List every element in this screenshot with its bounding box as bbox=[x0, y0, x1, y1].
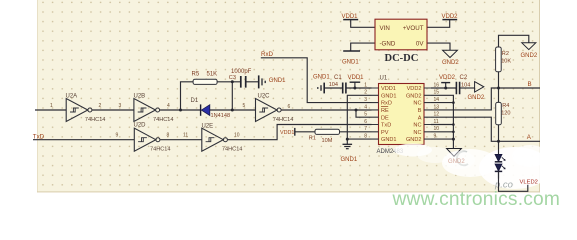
svg-text:GND1: GND1 bbox=[341, 157, 358, 163]
svg-text:A: A bbox=[418, 115, 422, 121]
power port VDD2 (IC pin16) bbox=[439, 75, 456, 82]
junction at VDD1 / pin1 bbox=[353, 87, 356, 90]
IC U1 RE overline bbox=[381, 106, 388, 108]
svg-text:3: 3 bbox=[119, 103, 122, 109]
wire C1 chain to pin1 bbox=[324, 82, 371, 88]
junction at net B / R2 bbox=[497, 87, 500, 90]
white wash background bottom right bbox=[417, 145, 551, 189]
svg-text:9: 9 bbox=[434, 134, 437, 140]
svg-text:GND2: GND2 bbox=[468, 95, 485, 101]
wire DCDC GND2 bbox=[427, 43, 450, 50]
resistor R1 bbox=[309, 129, 340, 144]
svg-text:10: 10 bbox=[434, 126, 440, 132]
svg-text:U2B: U2B bbox=[134, 94, 146, 100]
wire D1 to U2C bbox=[210, 109, 256, 111]
svg-text:2: 2 bbox=[364, 90, 367, 96]
svg-text:VLED2: VLED2 bbox=[520, 180, 538, 186]
svg-text:74HC14: 74HC14 bbox=[150, 146, 171, 152]
IC U1 right pin stubs bbox=[424, 88, 431, 139]
wire B to R4 bbox=[498, 88, 500, 102]
op-amp/IC U1 ADM2483 bbox=[377, 75, 425, 154]
power port GND1 (DC-DC) bbox=[342, 51, 360, 66]
IC U1 left pin names bbox=[381, 86, 397, 143]
svg-text:1N4148: 1N4148 bbox=[211, 113, 231, 119]
wire VDD1 to R1 bbox=[295, 131, 315, 133]
svg-text:GND1: GND1 bbox=[342, 60, 359, 66]
svg-text:GND1: GND1 bbox=[381, 93, 397, 99]
svg-text:14: 14 bbox=[434, 97, 440, 103]
wire net A bbox=[431, 117, 540, 141]
svg-text:C1: C1 bbox=[334, 75, 342, 81]
ground GND2 (DC-DC) bbox=[442, 50, 459, 66]
svg-text:16: 16 bbox=[434, 82, 440, 88]
svg-text:VDD1: VDD1 bbox=[280, 130, 294, 136]
svg-text:VDD2: VDD2 bbox=[407, 86, 422, 92]
svg-text:DE: DE bbox=[381, 115, 389, 121]
junction at GND2 bus pin10 bbox=[452, 131, 455, 134]
wire C3 node down bbox=[231, 82, 233, 110]
wire pin16 VDD2 bbox=[431, 83, 456, 88]
power port VDD1 (DC-DC) bbox=[342, 14, 359, 20]
svg-text:RxD: RxD bbox=[261, 51, 274, 58]
svg-text:10M: 10M bbox=[322, 138, 333, 144]
schematic sheet background bbox=[37, 0, 540, 192]
junction at R5-C3 node bbox=[231, 80, 234, 83]
svg-text:VDD1: VDD1 bbox=[381, 86, 396, 92]
ground GND1 (below pin8) bbox=[341, 144, 358, 163]
svg-text:74HC14: 74HC14 bbox=[85, 117, 106, 123]
svg-text:10: 10 bbox=[234, 133, 240, 139]
wire U2B out to D1 bbox=[160, 109, 201, 111]
resistor R4 bbox=[496, 102, 511, 124]
wire U2A out to U2B in bbox=[92, 109, 134, 111]
svg-text:NC: NC bbox=[413, 101, 421, 107]
svg-text:74HC14: 74HC14 bbox=[222, 146, 243, 152]
svg-text:NC: NC bbox=[413, 123, 421, 129]
svg-text:VDD2: VDD2 bbox=[439, 75, 456, 81]
svg-text:74HC14: 74HC14 bbox=[273, 117, 294, 123]
ground GND1 (after C3, sideways) bbox=[259, 75, 286, 88]
power port VDD1 (R1 row) bbox=[280, 128, 295, 136]
net label A bbox=[527, 134, 532, 141]
svg-text:5: 5 bbox=[364, 112, 367, 118]
svg-text:D1: D1 bbox=[191, 98, 199, 104]
svg-text:5: 5 bbox=[243, 103, 246, 109]
svg-text:+VOUT: +VOUT bbox=[403, 25, 424, 32]
resistor R2 bbox=[496, 47, 512, 72]
wire U2E out to IC pin6 bbox=[228, 125, 372, 140]
svg-text:GND2: GND2 bbox=[406, 137, 422, 143]
svg-text:U1: U1 bbox=[380, 75, 388, 81]
wire R5 to C3 bbox=[217, 81, 240, 83]
junction at RE/DE tie bbox=[355, 109, 358, 112]
svg-text:7: 7 bbox=[364, 126, 367, 132]
wire RxD net bbox=[261, 58, 372, 103]
capacitor C3 1000pF bbox=[229, 69, 252, 88]
wire U2A input bbox=[35, 109, 66, 111]
svg-text:R5: R5 bbox=[192, 71, 200, 77]
wire DCDC VDD1 bbox=[351, 20, 375, 28]
inverter U2B bbox=[134, 94, 174, 123]
svg-text:VIN: VIN bbox=[380, 25, 390, 32]
net label B bbox=[528, 81, 532, 88]
resistor R5 bbox=[192, 71, 218, 84]
svg-text:104: 104 bbox=[461, 83, 470, 89]
wire R2 top to GND2 bbox=[499, 35, 529, 47]
IC U1 left pin numbers 1-8 bbox=[364, 82, 367, 139]
svg-text:RE: RE bbox=[381, 108, 389, 114]
svg-text:U2A: U2A bbox=[66, 94, 78, 100]
svg-text:11: 11 bbox=[183, 133, 188, 139]
capacitor C2 104 bbox=[456, 75, 470, 94]
wire C2 to GND2 bbox=[460, 87, 475, 89]
wire TxD input bbox=[33, 139, 134, 141]
wire R2 to B bbox=[498, 72, 500, 88]
svg-text:B: B bbox=[528, 81, 532, 88]
IC U1 right pin numbers 16-9 bbox=[434, 82, 440, 139]
svg-text:120: 120 bbox=[501, 111, 510, 117]
svg-text:GND1: GND1 bbox=[269, 78, 286, 84]
svg-text:GND2: GND2 bbox=[406, 93, 422, 99]
junction at net A / R4 bbox=[497, 140, 500, 143]
svg-text:12: 12 bbox=[434, 112, 440, 118]
ground GND2 (below bus) bbox=[447, 149, 466, 165]
wire pin8 bbox=[347, 138, 371, 140]
junction at GND1 / pin8 bbox=[346, 138, 349, 141]
ground GND1 (sideways, before C1) bbox=[313, 74, 330, 93]
svg-text:GND1: GND1 bbox=[381, 137, 397, 143]
svg-text:6: 6 bbox=[364, 119, 367, 125]
svg-text:VDD1: VDD1 bbox=[348, 75, 365, 81]
svg-text:1000pF: 1000pF bbox=[231, 69, 252, 75]
svg-text:www.cntronics.com: www.cntronics.com bbox=[392, 189, 561, 210]
white highlight blob over ADM label bbox=[394, 144, 475, 170]
junction at GND2 bus pin14 bbox=[452, 101, 455, 104]
net label TxD bbox=[33, 133, 45, 140]
svg-text:2: 2 bbox=[99, 103, 102, 109]
wire A to D2 bbox=[498, 141, 500, 154]
junction at D1 cathode / C3 branch bbox=[231, 109, 234, 112]
wire R1 to IC pin7 bbox=[340, 131, 372, 133]
svg-text:15: 15 bbox=[434, 90, 440, 96]
junction at GND2 bus pin9 bbox=[452, 138, 455, 141]
net label RxD bbox=[261, 51, 274, 58]
svg-text:8: 8 bbox=[167, 133, 170, 139]
power port VDD2 (DC-DC) bbox=[442, 14, 459, 20]
svg-text:TxD: TxD bbox=[381, 123, 391, 129]
inverter U2D bbox=[134, 123, 171, 153]
svg-text:GND2: GND2 bbox=[521, 53, 538, 59]
svg-text:1: 1 bbox=[364, 82, 367, 88]
svg-text:4: 4 bbox=[364, 104, 367, 110]
svg-text:6: 6 bbox=[288, 104, 291, 110]
diode D2 (LED) bbox=[495, 155, 505, 179]
DC-DC converter module bbox=[375, 19, 427, 64]
svg-text:51K: 51K bbox=[207, 71, 218, 77]
svg-text:NC: NC bbox=[413, 130, 421, 136]
wire pin2 to GND1 bbox=[347, 95, 371, 144]
wire C3 to GND1 bbox=[246, 81, 258, 83]
svg-text:11: 11 bbox=[434, 119, 439, 125]
wire RE-DE tie bbox=[356, 110, 372, 117]
svg-text:DC-DC: DC-DC bbox=[385, 53, 419, 64]
svg-text:R2: R2 bbox=[502, 51, 509, 57]
wire U2C out to IC pin4 bbox=[281, 109, 371, 111]
svg-text:GND1: GND1 bbox=[313, 74, 330, 80]
svg-text:3: 3 bbox=[364, 97, 367, 103]
svg-text:VDD1: VDD1 bbox=[342, 14, 359, 20]
inverter U2A bbox=[66, 94, 106, 123]
inverter U2E bbox=[202, 123, 243, 152]
watermark www.cntronics.com bbox=[392, 189, 561, 210]
svg-text:104: 104 bbox=[329, 82, 338, 88]
junction at U2B output / R5 branch bbox=[179, 109, 182, 112]
wire U2D out to U2E in bbox=[160, 139, 202, 141]
svg-text:TxD: TxD bbox=[33, 133, 45, 140]
wire D2 to VLED2 bbox=[499, 167, 528, 192]
net label VLED2 bbox=[520, 180, 538, 186]
diode D1 bbox=[191, 98, 231, 119]
svg-text:R1: R1 bbox=[309, 136, 316, 142]
svg-text:PV: PV bbox=[381, 130, 389, 136]
svg-text:8: 8 bbox=[364, 134, 367, 140]
svg-text:4: 4 bbox=[167, 103, 170, 109]
svg-text:U2C: U2C bbox=[258, 94, 271, 100]
svg-text:GND2: GND2 bbox=[442, 60, 459, 66]
svg-text:9: 9 bbox=[116, 133, 119, 139]
svg-text:0V: 0V bbox=[416, 40, 424, 47]
svg-text:U2D: U2D bbox=[134, 123, 147, 129]
svg-text:-GND: -GND bbox=[380, 40, 396, 47]
capacitor C1 104 bbox=[329, 75, 346, 93]
power port VDD1 (IC pin1) bbox=[348, 75, 365, 82]
svg-text:C3: C3 bbox=[229, 75, 236, 81]
ground GND2 (top right, R2) bbox=[521, 43, 538, 59]
svg-text:C2: C2 bbox=[460, 75, 468, 81]
inverter U2C bbox=[256, 94, 294, 123]
wire net B bbox=[431, 88, 540, 110]
wire R5 branch up bbox=[181, 82, 194, 110]
watermark gray swirl and p.co bbox=[457, 151, 513, 190]
junction at VDD2 / pin16 bbox=[444, 87, 447, 90]
wire DCDC VDD2 bbox=[427, 20, 450, 28]
IC U1 right pin names bbox=[406, 86, 422, 143]
svg-text:B: B bbox=[418, 108, 422, 114]
svg-text:RxD: RxD bbox=[381, 101, 392, 107]
wire DCDC GND1 bbox=[351, 43, 375, 51]
ground GND2 (sideways triangle after C2) bbox=[468, 82, 485, 101]
junction at GND2 bus pin11 bbox=[452, 123, 455, 126]
wire R4 to A bbox=[498, 125, 500, 142]
IC U1 left pin stubs bbox=[372, 88, 379, 139]
svg-text:1: 1 bbox=[50, 103, 53, 109]
svg-text:13: 13 bbox=[434, 104, 440, 110]
wire GND2 bus bbox=[431, 95, 453, 148]
svg-text:U2E: U2E bbox=[202, 123, 214, 129]
svg-text:R4: R4 bbox=[502, 103, 509, 109]
svg-text:74HC14: 74HC14 bbox=[153, 117, 174, 123]
svg-text:VDD2: VDD2 bbox=[442, 14, 459, 20]
svg-text:10K: 10K bbox=[501, 59, 511, 65]
